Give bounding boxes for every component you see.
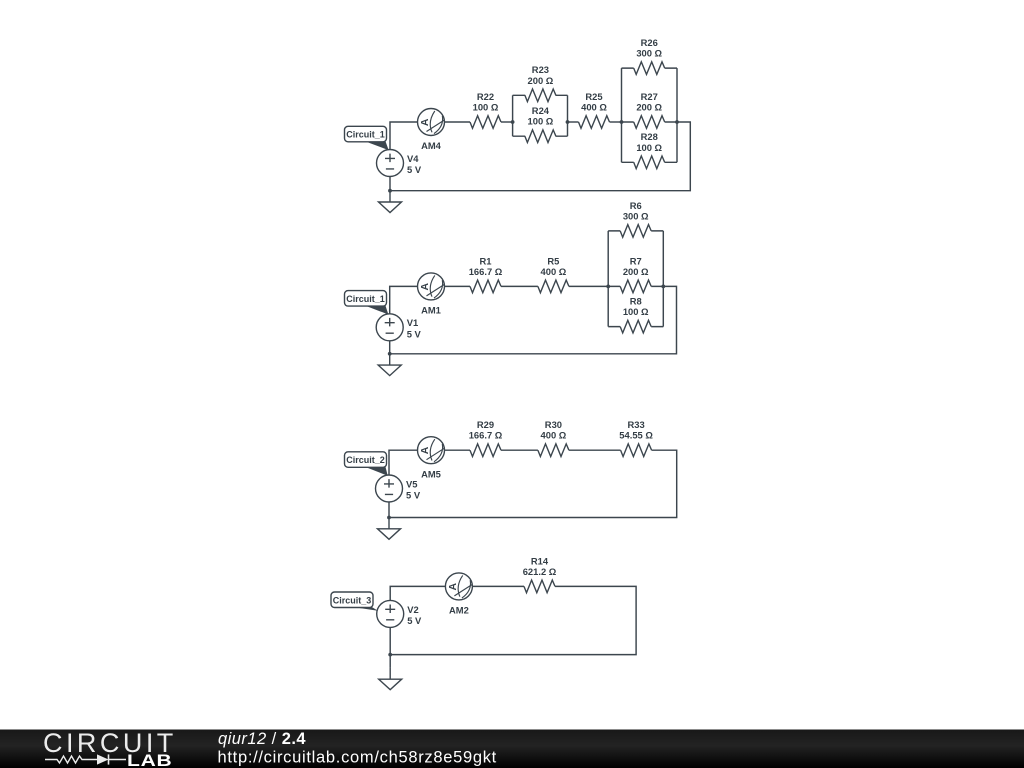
wire AM5 to R29 (445, 449, 471, 451)
wire AM4 to R22 (445, 121, 471, 123)
wire left vertical of R6-R8 group (607, 231, 609, 327)
resistor R6 300 &#937; (620, 200, 651, 237)
wire top branch stubs R26 (622, 67, 678, 69)
resistor R5 400 &#937; (538, 255, 569, 292)
svg-text:166.7 Ω: 166.7 Ω (469, 430, 503, 441)
wire R29 to R30 (501, 449, 538, 451)
wire V5 bottom to ground node (388, 502, 390, 518)
svg-text:100 Ω: 100 Ω (473, 102, 499, 113)
svg-text:5 V: 5 V (407, 164, 422, 175)
resistor R29 166.7 &#937; (469, 419, 503, 456)
resistor R26 300 &#937; (634, 37, 665, 74)
wire middle branch stubs R7 (608, 285, 663, 287)
wire right vertical of R6-R8 group (662, 231, 664, 327)
wire V2 bottom to ground node (389, 627, 391, 654)
ammeter AM1 (418, 273, 445, 316)
svg-text:621.2 Ω: 621.2 Ω (523, 566, 557, 577)
svg-text:5 V: 5 V (407, 615, 422, 626)
svg-text:R30: R30 (545, 419, 562, 430)
node ground junction V1 (388, 352, 392, 356)
svg-text:R24: R24 (532, 105, 550, 116)
ground (bottom circuit) (379, 668, 402, 690)
node junction right of R7 (661, 285, 665, 289)
svg-text:166.7 Ω: 166.7 Ω (469, 266, 503, 277)
ground (third circuit) (378, 518, 401, 540)
resistor R30 400 &#937; (538, 419, 569, 456)
wire R22 to node (501, 121, 513, 123)
svg-text:400 Ω: 400 Ω (541, 266, 567, 277)
node junction R23/R24/R25 (566, 120, 570, 124)
ground (top circuit) (379, 191, 402, 213)
wire V1 bottom to ground node (389, 341, 391, 354)
resistor R23 200 &#937; (525, 64, 556, 101)
resistor R14 621.2 &#937; (523, 555, 557, 592)
svg-text:R25: R25 (585, 91, 602, 102)
svg-text:R7: R7 (630, 255, 642, 266)
svg-text:200 Ω: 200 Ω (636, 102, 662, 113)
svg-text:R6: R6 (630, 200, 642, 211)
node junction R25/R26/R27/R28 (620, 120, 624, 124)
svg-text:R29: R29 (477, 419, 494, 430)
svg-text:V5: V5 (406, 478, 417, 489)
svg-text:R1: R1 (480, 255, 492, 266)
footer bar (0, 730, 1024, 768)
svg-text:300 Ω: 300 Ω (636, 48, 662, 59)
resistor R28 100 &#937; (634, 131, 665, 168)
node junction right of R27 (675, 120, 679, 124)
svg-text:Circuit_1: Circuit_1 (346, 294, 385, 304)
node junction R22/R23/R24 (511, 120, 515, 124)
voltage source V4 5 V (377, 150, 422, 177)
wire top branch stubs R6 (608, 230, 663, 232)
wire ground stem (389, 655, 391, 668)
node label Circuit_1 (top circuit) (345, 126, 389, 150)
wire R30 to R33 (569, 449, 621, 451)
svg-text:R26: R26 (641, 37, 658, 48)
svg-text:LAB: LAB (127, 752, 173, 768)
resistor R33 54.55 &#937; (619, 419, 653, 456)
svg-text:100 Ω: 100 Ω (623, 306, 649, 317)
svg-text:Circuit_3: Circuit_3 (333, 595, 372, 605)
ammeter AM4 (418, 109, 445, 152)
ground (second circuit) (378, 354, 401, 376)
wire R5 to node (569, 285, 608, 287)
svg-text:Circuit_2: Circuit_2 (346, 455, 385, 465)
resistor R1 166.7 &#937; (469, 255, 503, 292)
wire V1 top to AM1 (390, 286, 418, 313)
svg-text:AM2: AM2 (449, 605, 469, 616)
ammeter AM5 (418, 437, 445, 480)
svg-text:200 Ω: 200 Ω (528, 75, 554, 86)
node ground junction V2 (388, 653, 392, 657)
svg-text:R27: R27 (641, 91, 658, 102)
voltage source V5 5 V (376, 475, 421, 502)
svg-text:R22: R22 (477, 91, 494, 102)
svg-text:V2: V2 (407, 604, 418, 615)
voltage source V2 5 V (377, 600, 422, 627)
wire left vertical of R26-R28 group (621, 68, 623, 162)
svg-text:100 Ω: 100 Ω (528, 116, 554, 127)
svg-text:R5: R5 (547, 255, 559, 266)
wire return right side to V1 bottom (390, 286, 677, 353)
resistor R25 400 &#937; (579, 91, 610, 128)
logo diode (97, 754, 109, 764)
wire V2 top to AM2 (390, 586, 445, 600)
wire bottom branch stubs R28 (622, 161, 678, 163)
voltage source V1 5 V (376, 314, 421, 341)
wire R1 to R5 (501, 285, 538, 287)
wire node to R25 (568, 121, 579, 123)
svg-text:5 V: 5 V (407, 328, 422, 339)
wire middle branch stubs R27 (622, 121, 678, 123)
svg-text:qiur12 / 2.4: qiur12 / 2.4 (218, 730, 306, 748)
logo resistor-diode symbol (45, 756, 126, 763)
wire left vertical of R23-R24 pair (512, 95, 514, 136)
svg-text:R14: R14 (531, 555, 549, 566)
ammeter AM2 (445, 573, 472, 616)
svg-text:V4: V4 (407, 153, 419, 164)
wire AM1 to R1 (445, 285, 471, 287)
node label Circuit_1 (second circuit) (345, 291, 389, 315)
wire bottom branch stubs R8 (608, 326, 663, 328)
resistor R7 200 &#937; (620, 255, 651, 292)
wire return right side to V2 bottom (390, 586, 636, 654)
wire bottom branch stubs R24 (513, 135, 568, 137)
svg-text:http://circuitlab.com/ch58rz8e: http://circuitlab.com/ch58rz8e59gkt (218, 749, 497, 767)
svg-text:R33: R33 (627, 419, 644, 430)
svg-text:AM1: AM1 (421, 305, 441, 316)
wire V4 top to AM4 (390, 122, 418, 150)
node label Circuit_2 (345, 452, 388, 476)
svg-text:400 Ω: 400 Ω (541, 430, 567, 441)
svg-text:100 Ω: 100 Ω (636, 142, 662, 153)
wire return right side to V5 bottom (389, 450, 677, 517)
svg-text:R8: R8 (630, 296, 642, 307)
wire R25 to node (610, 121, 622, 123)
svg-text:400 Ω: 400 Ω (581, 102, 607, 113)
svg-text:54.55 Ω: 54.55 Ω (619, 430, 653, 441)
svg-text:AM5: AM5 (421, 468, 441, 479)
svg-text:Circuit_1: Circuit_1 (346, 130, 385, 140)
svg-text:V1: V1 (407, 317, 418, 328)
wire right vertical of R23-R24 pair (567, 95, 569, 136)
wire return right side to V4 bottom (390, 122, 690, 191)
wire right vertical of R26-R28 group (676, 68, 678, 162)
resistor R24 100 &#937; (525, 105, 556, 142)
resistor R8 100 &#937; (620, 296, 651, 333)
svg-text:AM4: AM4 (421, 140, 442, 151)
node ground junction V5 (387, 516, 391, 520)
svg-text:R28: R28 (641, 131, 658, 142)
resistor R27 200 &#937; (634, 91, 665, 128)
resistor R22 100 &#937; (470, 91, 501, 128)
node label Circuit_3 (331, 592, 378, 611)
node ground junction V4 (388, 189, 392, 193)
wire V4 bottom to ground node (389, 177, 391, 191)
svg-text:R23: R23 (532, 64, 549, 75)
wire V5 top to AM5 (389, 450, 418, 475)
node junction R5/R6/R7/R8 (606, 285, 610, 289)
svg-text:5 V: 5 V (406, 490, 421, 501)
wire top branch stubs R23 (513, 94, 568, 96)
svg-text:200 Ω: 200 Ω (623, 266, 649, 277)
wire AM2 to R14 (472, 585, 524, 587)
svg-text:300 Ω: 300 Ω (623, 210, 649, 221)
